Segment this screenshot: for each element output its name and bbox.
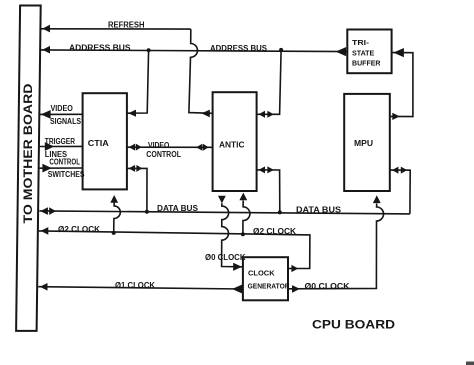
arrow MPU to buffer [392,113,400,120]
arrow into buffer right [393,48,404,57]
wire VIDEO SIGNALS [39,113,82,115]
arrow phase2 out of clock generator [291,265,298,272]
svg-text:VIDEO: VIDEO [148,141,169,150]
wire CONTROL SWITCHES [39,167,83,169]
arrow pair video control at CTIA [129,144,135,151]
svg-text:CTIA: CTIA [88,139,109,148]
arrow pair MPU right bottom [392,167,398,174]
svg-text:VIDEO: VIDEO [51,104,73,113]
svg-text:Ø0 CLOCK: Ø0 CLOCK [305,282,350,291]
node data bus / ANTIC junction [278,210,282,214]
node phase2 / CTIA junction [112,231,116,235]
svg-text:Ø0 CLOCK: Ø0 CLOCK [205,253,246,262]
wire TRIGGER LINES [39,145,83,147]
svg-text:REFRESH: REFRESH [108,21,145,30]
arrow up into MPU bottom [373,195,381,203]
svg-text:ANTIC: ANTIC [219,140,245,149]
arrow down out of ANTIC bottom [218,196,226,204]
svg-text:Ø2 CLOCK: Ø2 CLOCK [253,227,296,236]
arrow refresh stub near ANTIC [202,110,210,118]
svg-text:TRI-: TRI- [352,38,370,47]
node address/CTIA junction [147,48,151,52]
node data bus / CTIA junction [145,210,149,214]
svg-text:CLOCK: CLOCK [248,268,275,277]
arrow address bus at bar [42,46,50,54]
mother board connector bar [16,6,41,331]
arrow phase2 at bar [41,227,49,235]
scan artifact bottom right [466,362,474,365]
box ANTIC [213,92,257,191]
svg-text:GENERATOR: GENERATOR [248,281,291,290]
wire phase0 clock generator to MPU with hop over data bus [288,204,383,289]
svg-text:DATA BUS: DATA BUS [296,205,342,214]
svg-text:SIGNALS: SIGNALS [50,117,82,126]
wire address bus to ANTIC [257,50,281,114]
wire REFRESH vertical with hop over address bus, stub into ANTIC [189,29,213,113]
svg-text:CONTROL: CONTROL [49,158,80,167]
svg-text:ADDRESS BUS: ADDRESS BUS [210,44,268,53]
arrow phase1 at bar [40,283,48,291]
svg-text:TO MOTHER BOARD: TO MOTHER BOARD [23,84,35,224]
svg-text:Ø1 CLOCK: Ø1 CLOCK [115,281,155,290]
wire MPU data to data bus [390,170,410,214]
node address/ANTIC junction [279,48,283,52]
wire phase2 up into ANTIC with hop over data bus [243,201,250,235]
wire phase1 clock [38,287,243,289]
arrow pair ANTIC right top [259,111,265,118]
arrow pair video control at ANTIC [196,144,202,151]
arrow address bus out of tri-state buffer [336,47,347,56]
svg-text:ADDRESS BUS: ADDRESS BUS [69,44,131,53]
svg-text:CONTROL: CONTROL [146,150,181,159]
box MPU [344,94,390,191]
wire phase2 clock [39,231,310,269]
arrow into CTIA right top [128,110,136,117]
wire ANTIC data to data bus [257,170,280,213]
arrow refresh at bar [42,25,50,33]
svg-text:Ø2 CLOCK: Ø2 CLOCK [58,225,100,234]
wire CTIA clock vertical with hop over data bus [114,202,121,233]
arrow up into CTIA bottom [110,195,118,203]
svg-text:STATE: STATE [352,48,374,57]
svg-text:BUFFER: BUFFER [352,59,381,68]
arrow pair ANTIC right bottom [259,166,265,173]
wire MPU address out to tri-state buffer [390,53,413,117]
wire address bus to CTIA [127,50,149,113]
wire ANTIC phase0 out, down to clock generator, hops over data bus and phase2 [222,203,242,267]
box CLOCK GENERATOR [243,257,288,300]
wire DATA BUS [39,211,410,214]
wire CTIA data to data bus [127,168,147,211]
svg-text:SWITCHES: SWITCHES [48,170,85,179]
svg-text:DATA BUS: DATA BUS [157,204,199,213]
arrow pair data bus at bar [40,207,48,215]
svg-text:TRIGGER: TRIGGER [45,137,75,146]
arrow up into ANTIC bottom [239,193,247,201]
wire ADDRESS BUS [40,50,347,52]
box CTIA [83,93,127,189]
svg-text:MPU: MPU [354,139,373,148]
arrow phase1 out of clock generator [232,284,243,293]
node phase2 / ANTIC junction [241,232,245,236]
box TRI-STATE BUFFER [347,30,391,74]
wire REFRESH horizontal [40,28,191,30]
wire VIDEO CONTROL between CTIA and ANTIC [127,146,213,148]
arrow into clock generator left [233,263,242,271]
svg-text:CPU BOARD: CPU BOARD [312,318,395,331]
arrow phase0 out of clock generator right [292,285,300,293]
